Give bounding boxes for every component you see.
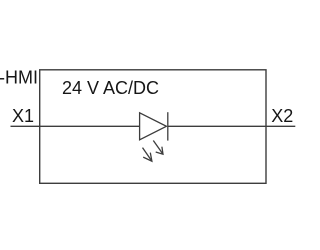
LED D1 emission arrow lower (143, 148, 152, 162)
LED D1 cathode bar (167, 112, 169, 140)
LED D1 emission arrow upper (153, 141, 163, 155)
wire right segment (168, 125, 296, 127)
svg-text:X1: X1 (12, 106, 34, 126)
wire left segment (11, 125, 140, 127)
enclosure box (40, 70, 266, 184)
svg-text:-HMI: -HMI (0, 68, 38, 88)
LED D1 diode triangle (140, 113, 167, 140)
svg-text:24 V AC/DC: 24 V AC/DC (62, 78, 159, 98)
svg-text:X2: X2 (271, 106, 293, 126)
